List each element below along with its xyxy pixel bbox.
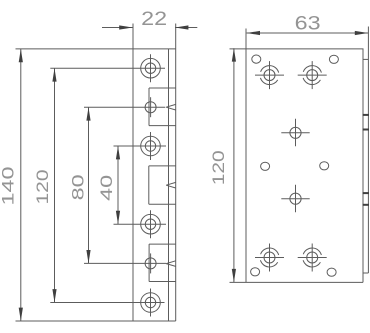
dim 22 right tail xyxy=(175,27,197,29)
counterbored hole 4 xyxy=(307,252,318,263)
side lip outer edge + dim-63 extension xyxy=(367,27,369,274)
dim 120 line xyxy=(54,68,56,302)
center hole 2 xyxy=(290,193,301,204)
screw hole 1 vertical centerline xyxy=(150,54,152,82)
left view plate left edge + dim-22 extension xyxy=(132,24,134,322)
notch1 top edge xyxy=(149,87,176,89)
svg-text:40: 40 xyxy=(97,175,116,201)
left view plate top edge + dim-140 extension xyxy=(16,48,176,50)
small hole 1 vertical centerline xyxy=(150,97,152,117)
notch1 bottom edge xyxy=(149,125,176,127)
hole1 horizontal centerline + extension xyxy=(50,67,165,69)
side lip slot mark 1 xyxy=(363,114,370,116)
right view bottom edge + dim-120 extension xyxy=(230,281,364,283)
svg-text:120: 120 xyxy=(209,150,228,185)
dim 63 line xyxy=(247,32,369,34)
center hole 1 xyxy=(290,127,301,138)
screw hole 4 outer xyxy=(141,293,161,313)
screw hole 3 vertical centerline xyxy=(150,210,152,238)
hole4 horizontal centerline + extension xyxy=(50,302,164,304)
dim 80 line xyxy=(88,107,90,263)
small hole1 horizontal centerline + extension xyxy=(84,106,165,108)
small hole r5 xyxy=(251,268,260,276)
small hole r3 xyxy=(261,162,270,170)
small hole r4 xyxy=(320,162,329,170)
small hole r1 xyxy=(252,55,261,63)
left view plate right edge + dim-22 extension xyxy=(175,24,177,322)
small hole2 horizontal centerline + extension xyxy=(84,262,166,264)
dim 40 line xyxy=(117,146,119,224)
right view right edge xyxy=(362,49,364,283)
screw hole 2 inner xyxy=(145,141,155,151)
notch2 bottom edge xyxy=(149,281,176,283)
dim 140 line xyxy=(20,49,22,321)
bent-tab V mark 3 xyxy=(166,261,176,264)
notch2 top edge xyxy=(149,243,176,245)
svg-text:140: 140 xyxy=(0,167,18,206)
hole3 horizontal centerline + extension xyxy=(114,223,167,225)
svg-text:80: 80 xyxy=(69,174,88,200)
small hole r6 xyxy=(327,268,336,276)
side lip slot mark 2 xyxy=(363,129,370,131)
small hole r2 xyxy=(329,55,338,63)
hole2 horizontal centerline + extension xyxy=(114,145,167,147)
side lip slot mark 3 xyxy=(363,192,370,194)
left view plate bottom edge + dim-140 extension xyxy=(16,320,176,322)
right view left edge + dim-63 extension xyxy=(245,29,247,283)
notch2 left edge xyxy=(148,244,150,281)
right view top edge + dim-120 extension xyxy=(230,48,364,50)
small hole 2 xyxy=(145,258,156,269)
screw hole 3 inner xyxy=(145,219,155,229)
screw hole 2 vertical centerline xyxy=(150,132,152,160)
latch cutout left edge xyxy=(148,166,150,204)
counterbored hole 1 xyxy=(264,70,275,81)
counterbored hole 3 xyxy=(264,252,275,263)
left view fold line (inner vertical) xyxy=(168,49,170,321)
notch1 left edge xyxy=(148,88,150,126)
side lip slot mark 4 xyxy=(363,204,370,206)
dim 22 left tail xyxy=(102,27,133,29)
bent-tab V mark 2 xyxy=(166,182,176,185)
svg-text:22: 22 xyxy=(141,8,167,30)
screw hole 4 inner xyxy=(145,297,155,307)
side lip bottom xyxy=(363,272,368,274)
dim 120 right line xyxy=(233,48,235,282)
screw hole 2 outer xyxy=(141,136,161,156)
latch cutout bottom edge xyxy=(149,203,176,205)
svg-text:63: 63 xyxy=(295,12,321,34)
counterbored hole 2 xyxy=(307,70,318,81)
latch cutout top edge xyxy=(149,165,176,167)
bent-tab V mark 1 xyxy=(166,104,176,107)
screw hole 3 outer xyxy=(141,214,161,234)
small hole 1 xyxy=(145,102,156,113)
screw hole 4 vertical centerline xyxy=(150,289,152,317)
svg-text:120: 120 xyxy=(33,170,52,205)
small hole 2 vertical centerline xyxy=(150,253,152,273)
side lip top xyxy=(363,58,368,60)
screw hole 1 inner xyxy=(145,63,155,73)
screw hole 1 outer xyxy=(141,58,161,78)
